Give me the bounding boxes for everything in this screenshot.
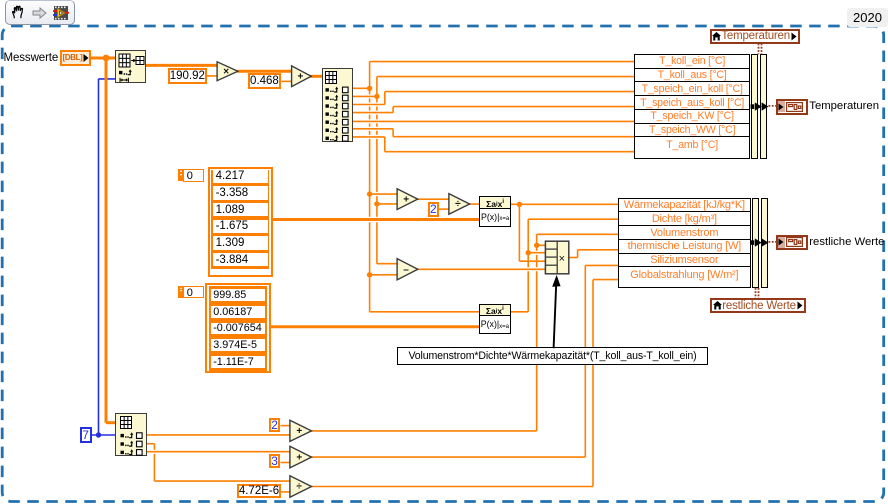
- svg-text:–: –: [403, 264, 409, 275]
- svg-text:+: +: [296, 426, 302, 437]
- svg-text:÷: ÷: [455, 199, 461, 210]
- svg-text:+: +: [297, 71, 303, 82]
- svg-text:×: ×: [223, 66, 229, 77]
- svg-text:+: +: [296, 452, 302, 463]
- svg-text:÷: ÷: [296, 482, 302, 493]
- svg-text:×: ×: [559, 253, 565, 265]
- svg-text:+: +: [403, 194, 409, 205]
